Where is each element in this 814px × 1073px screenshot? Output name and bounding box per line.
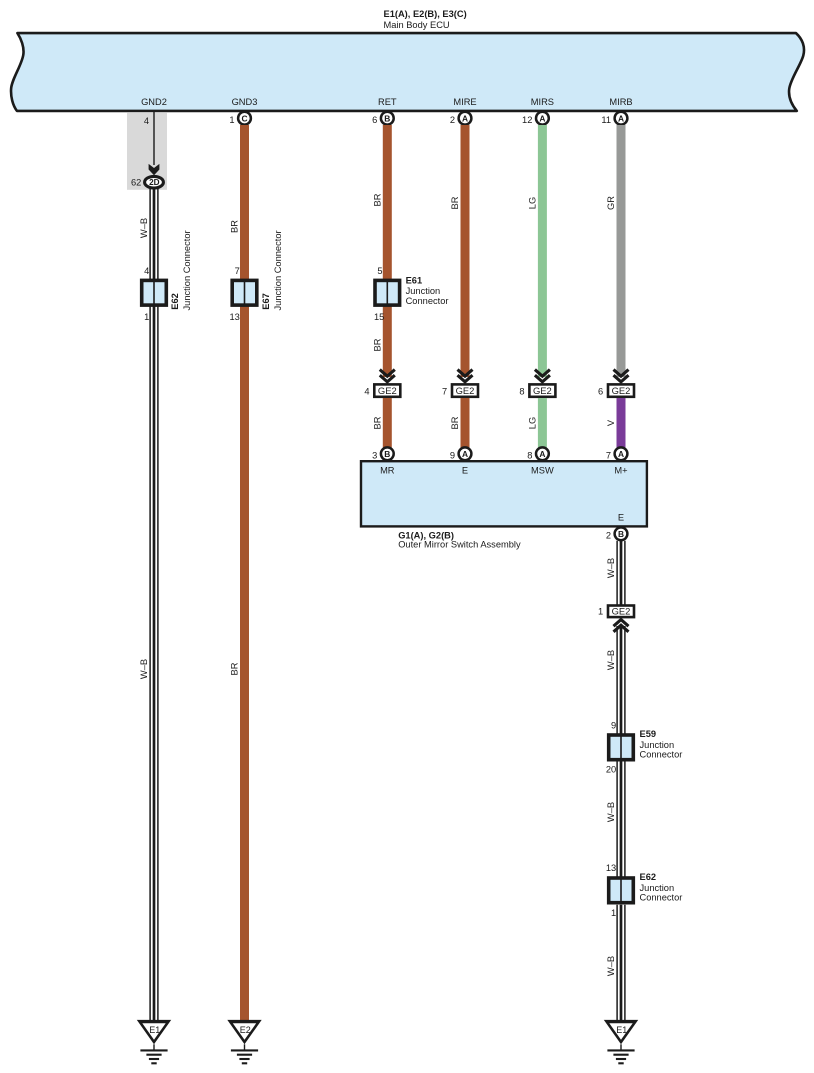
svg-text:A: A [618,113,624,123]
junction connector E62 (right) [609,878,634,903]
svg-text:MIRS: MIRS [531,97,554,107]
connector GE2 pin 8 [519,384,555,396]
arrowhead into connector 2D [149,164,160,175]
svg-text:GE2: GE2 [456,385,475,396]
svg-text:E1(A), E2(B), E3(C): E1(A), E2(B), E3(C) [384,9,467,19]
svg-text:RET: RET [378,97,397,107]
svg-text:8: 8 [519,386,524,396]
pin 3(B) Outer Mirror Switch MR [372,447,394,460]
label E59 [640,729,657,739]
wire: W-B from pin 2(B) to GE2 [617,541,625,605]
svg-text:MIRE: MIRE [453,97,476,107]
svg-text:B: B [384,113,390,123]
wire: W-B from connector 2D to ground E1 [150,189,158,1021]
pin 1(C) Main Body ECU GND3 [229,112,251,125]
wire color label W-B (GE2 to E59) [606,650,616,670]
svg-text:4: 4 [364,386,369,396]
svg-text:2D: 2D [149,178,160,187]
svg-text:E: E [462,466,468,476]
svg-text:A: A [462,449,468,459]
junction connector E61 [375,280,400,305]
pin 9 label (junction connector E59) [611,721,616,731]
svg-text:A: A [462,113,468,123]
svg-text:GE2: GE2 [533,385,552,396]
wire color label W-B (lower, GND2) [139,659,149,679]
svg-text:20: 20 [606,764,616,774]
svg-text:9: 9 [450,450,455,460]
svg-text:Junction: Junction [406,286,441,296]
svg-text:11: 11 [601,115,611,125]
pin 4 label (junction connector E62) [144,266,149,276]
svg-text:9: 9 [611,721,616,731]
svg-text:GND3: GND3 [232,97,258,107]
wire color label BR (upper, GND3) [230,220,240,233]
pin 7 label (junction connector E67) [235,266,240,276]
wire color label W-B (upper, GND2) [139,218,149,238]
label Connector (E62 right) [640,893,683,903]
svg-text:Junction Connector: Junction Connector [273,230,283,310]
svg-text:LG: LG [527,417,537,429]
svg-text:7: 7 [606,450,611,460]
pin 8(A) Outer Mirror Switch MSW [527,447,549,460]
ground E2 [227,1020,261,1063]
net label MIRE [453,97,476,107]
svg-text:7: 7 [442,386,447,396]
label Junction (E61) [406,286,441,296]
svg-text:Main Body ECU: Main Body ECU [384,20,450,30]
svg-text:2: 2 [606,530,611,540]
svg-text:A: A [539,449,545,459]
terminal label E (top) [462,466,468,476]
terminal label M+ [614,466,627,476]
svg-text:MR: MR [380,466,395,476]
wire: BR GE2 to MR [383,398,392,448]
in-line connector arrows into GE2 (pin 4) [380,370,395,382]
svg-text:1: 1 [611,908,616,918]
svg-text:1: 1 [229,115,234,125]
svg-text:GE2: GE2 [612,606,631,617]
pin 7(A) Outer Mirror Switch M+ [606,447,628,460]
label E67 (rotated) [261,293,271,310]
net label GND2 [141,97,167,107]
svg-text:W–B: W–B [606,956,616,976]
junction connector E59 [609,735,634,760]
svg-text:Connector: Connector [640,750,683,760]
pin 4 label (Main Body ECU, GND2) [144,116,149,126]
terminal label MSW [531,466,554,476]
ground E1 (right) [604,1020,638,1063]
svg-text:A: A [618,449,624,459]
connector 2D (oval) with pin 62 [131,176,163,188]
wire: BR from MIRE to GE2 [461,125,470,377]
svg-text:W–B: W–B [139,218,149,238]
Main Body ECU block (torn band) [11,33,804,111]
svg-text:E: E [618,513,624,523]
svg-text:A: A [539,113,545,123]
svg-text:62: 62 [131,178,141,188]
terminal label MR [380,466,395,476]
svg-text:Connector: Connector [406,296,449,306]
pin 1 label (junction connector E62 right) [611,908,616,918]
pin 2(B) Outer Mirror Switch E [606,527,628,540]
gray highlight region on GND2 circuit [127,112,167,190]
in-line connector arrows into GE2 (pin 7) [458,370,473,382]
in-line connector arrows out of GE2 (pin 1) [614,620,629,632]
svg-text:13: 13 [606,863,616,873]
label Junction Connector (rotated, E67) [273,230,283,310]
svg-text:6: 6 [598,386,603,396]
pin 12(A) Main Body ECU MIRS [522,112,549,125]
svg-text:4: 4 [144,266,149,276]
wire: GR from MIRB to GE2 [617,125,626,377]
connector GE2 pin 7 [442,384,478,396]
junction connector E62 (left) [142,280,167,305]
net label MIRS [531,97,554,107]
wire color label BR (MIRE upper) [450,196,460,209]
label Junction Connector (rotated, E62) [182,230,192,310]
svg-text:BR: BR [230,220,240,233]
connector GE2 pin 4 [364,384,400,396]
svg-text:Junction: Junction [640,740,675,750]
pin 5 label (junction connector E61) [377,266,382,276]
svg-text:E62: E62 [640,872,657,882]
svg-text:BR: BR [372,416,382,429]
svg-text:6: 6 [372,115,377,125]
svg-text:5: 5 [377,266,382,276]
svg-text:E59: E59 [640,729,657,739]
svg-text:8: 8 [527,450,532,460]
wire color label BR (to E) [450,416,460,429]
svg-text:12: 12 [522,115,532,125]
pin 13 label (junction connector E62 right) [606,863,616,873]
pin 1 label (junction connector E62) [144,312,149,322]
svg-text:Junction Connector: Junction Connector [182,230,192,310]
in-line connector arrows into GE2 (pin 8) [535,370,550,382]
wire: LG GE2 to MSW [538,398,547,448]
svg-text:4: 4 [144,116,149,126]
svg-text:W–B: W–B [606,558,616,578]
pin 6(B) Main Body ECU RET [372,112,394,125]
svg-text:2: 2 [450,115,455,125]
svg-text:E1: E1 [616,1025,627,1035]
terminal label E (bottom) [618,513,624,523]
svg-text:E61: E61 [406,276,423,286]
svg-text:Connector: Connector [640,893,683,903]
label G1(A), G2(B) [398,530,454,540]
wire color label V (to M+) [606,419,616,426]
wire color label BR (RET middle) [372,338,382,351]
svg-text:BR: BR [372,193,382,206]
label: ECU connector codes E1(A), E2(B), E3(C) [384,9,467,19]
svg-text:13: 13 [229,312,239,322]
svg-text:C: C [241,113,247,123]
pin 13 label (junction connector E67) [229,312,239,322]
wire: W-B from E62 to ground E1 [617,905,625,1021]
label Connector (E61) [406,296,449,306]
label Junction (E59) [640,740,675,750]
svg-text:BR: BR [230,662,240,675]
in-line connector arrows into GE2 (pin 6) [614,370,629,382]
wire color label GR (MIRB upper) [606,196,616,210]
svg-text:E67: E67 [261,293,271,310]
wire: W-B from E59 to E62 [617,762,625,877]
svg-text:LG: LG [527,197,537,209]
label E61 [406,276,423,286]
Outer Mirror Switch Assembly block [361,461,647,526]
pin 9(A) Outer Mirror Switch E [450,447,472,460]
svg-text:E1: E1 [149,1025,160,1035]
label Outer Mirror Switch Assembly [398,540,521,550]
svg-text:GE2: GE2 [612,385,631,396]
svg-text:1: 1 [144,312,149,322]
svg-text:MSW: MSW [531,466,554,476]
pin 15 label (junction connector E61) [374,312,384,322]
svg-text:BR: BR [450,196,460,209]
svg-text:E2: E2 [240,1025,251,1035]
connector GE2 pin 1 (lower) [598,606,634,618]
label Junction (E62 right) [640,883,675,893]
svg-text:3: 3 [372,450,377,460]
svg-text:GR: GR [606,196,616,210]
label Connector (E59) [640,750,683,760]
net label GND3 [232,97,258,107]
wire color label W-B (E59 to E62) [606,802,616,822]
svg-text:GE2: GE2 [378,385,397,396]
wire: V GE2 to M+ [617,398,626,448]
wire: W-B from GE2 to E59 [617,626,625,734]
svg-text:7: 7 [235,266,240,276]
wire color label W-B (to GE2) [606,558,616,578]
ground E1 (left) [137,1020,171,1063]
svg-text:B: B [384,449,390,459]
svg-text:BR: BR [450,416,460,429]
svg-text:B: B [618,529,624,539]
label E62 (rotated) [170,293,180,310]
svg-text:15: 15 [374,312,384,322]
svg-text:W–B: W–B [606,802,616,822]
wire color label BR (RET upper) [372,193,382,206]
svg-text:BR: BR [372,338,382,351]
wire: GND2 pin 4 lead (thin arrow shaft) [153,112,155,165]
svg-text:E62: E62 [170,293,180,310]
wire color label W-B (to ground) [606,956,616,976]
svg-text:W–B: W–B [139,659,149,679]
svg-text:W–B: W–B [606,650,616,670]
wire color label BR (to MR) [372,416,382,429]
wire: BR GE2 to E [461,398,470,448]
svg-text:Outer Mirror Switch Assembly: Outer Mirror Switch Assembly [398,540,521,550]
svg-text:V: V [606,419,616,426]
svg-text:MIRB: MIRB [609,97,632,107]
pin 11(A) Main Body ECU MIRB [601,112,627,125]
svg-text:Junction: Junction [640,883,675,893]
wire color label LG (MIRS upper) [527,197,537,209]
wire color label BR (lower, GND3) [230,662,240,675]
svg-text:1: 1 [598,606,603,616]
net label RET [378,97,397,107]
pin 2(A) Main Body ECU MIRE [450,112,472,125]
connector GE2 pin 6 [598,384,634,396]
pin 20 label (junction connector E59) [606,764,616,774]
junction connector E67 [232,280,257,305]
wire color label LG (to MSW) [527,417,537,429]
wire: LG from MIRS to GE2 [538,125,547,377]
wire: BR from GND3 to ground E2 [240,125,249,1021]
svg-text:GND2: GND2 [141,97,167,107]
wire: BR from RET to GE2 [383,125,392,377]
net label MIRB [609,97,632,107]
label E62 (right) [640,872,657,882]
label: Main Body ECU [384,20,450,30]
svg-text:M+: M+ [614,466,627,476]
